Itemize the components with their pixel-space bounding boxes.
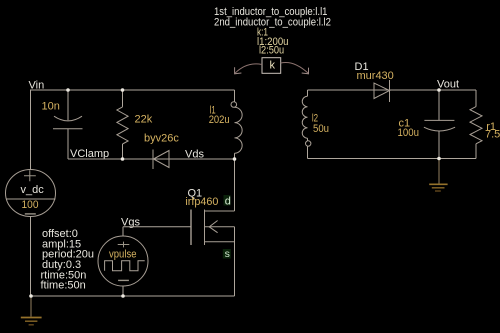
source V1 v_dc circle [6,170,56,217]
svg-text:100: 100 [22,199,39,211]
svg-text:2nd_inductor_to_couple:l.l2: 2nd_inductor_to_couple:l.l2 [214,16,331,28]
v_dc divider line [7,198,56,200]
wire top rail Vin [30,89,235,91]
diode D2 cathode bar [152,150,154,170]
svg-text:50u: 50u [313,123,329,135]
inductor L1 phase dot [231,102,237,108]
junction dot secondary gnd/c1 [437,157,441,161]
svg-text:7.5: 7.5 [485,128,500,140]
capacitor C2 straight plate [53,128,83,130]
inductor L2 coil [302,96,307,138]
svg-text:d: d [225,195,231,207]
transistor Q1 drain stub [205,210,235,212]
wire v_dc bottom [30,217,32,297]
capacitor c1 bottom wire [438,131,440,159]
svg-text:byv26c: byv26c [144,133,179,145]
transistor Q1 drain wire [234,159,236,211]
svg-text:202u: 202u [209,114,230,126]
svg-text:l2:50u: l2:50u [259,44,284,56]
transistor Q1 drain pin label d [224,195,231,206]
capacitor C2 top wire [67,90,69,120]
svg-text:100u: 100u [398,127,420,139]
wire Vgs rail [123,226,191,228]
wire secondary top rail [308,89,477,91]
resistor 22k zigzag [117,107,128,144]
svg-text:Vds: Vds [185,149,204,161]
junction dot Vin/22k [121,88,125,92]
capacitor C2 curved plate [54,116,82,121]
ground secondary bars [429,183,447,185]
vpulse plus sign [118,242,130,248]
wire secondary bottom rail [308,158,477,160]
ground primary stem [30,296,32,317]
svg-text:s: s [225,248,230,260]
capacitor C2 bottom wire [67,129,69,159]
diode D1 triangle [374,83,390,99]
svg-text:k: k [270,60,276,72]
ground primary bars [21,317,42,319]
resistor r1 zigzag [470,107,482,144]
junction dot bottom/vpulse [121,294,125,298]
v_dc plus sign [24,170,36,181]
vpulse minus sign [118,279,129,281]
wire vpulse top [122,227,124,236]
resistor r1 top wire [475,90,477,107]
junction dot Vin/C2 [66,88,70,92]
transistor Q1 source wire [234,227,236,296]
capacitor c1 straight plate [424,119,454,121]
transistor Q1 source stub [205,241,235,243]
transistor Q1 source pin label s [223,249,231,259]
inductor L1 top wire [234,90,236,102]
resistor 22k bottom wire [122,144,124,159]
svg-text:ftime:50n: ftime:50n [41,280,86,292]
inductor L1 coil [235,107,243,153]
junction dot Vds/L1/drain [233,157,237,161]
coupling box K1 [262,58,281,74]
junction dot bottom/ground [29,294,33,298]
svg-text:VClamp: VClamp [70,148,109,160]
svg-text:Vout: Vout [437,78,459,90]
ground secondary stem [438,159,440,184]
inductor L1 bottom wire [234,153,236,159]
coupling arrow right [281,62,309,73]
vpulse waveform glyph [105,261,145,271]
svg-text:vpulse: vpulse [109,249,137,261]
capacitor c1 curved plate [424,127,455,131]
transistor Q1 body stub with arrow [205,226,235,228]
junction dot Vout/c1 [437,88,441,92]
junction dot VClamp/22k [121,157,125,161]
v_dc minus sign [25,213,36,215]
wire bottom rail [31,295,235,297]
svg-text:mur430: mur430 [357,70,394,82]
svg-text:irfp460: irfp460 [185,196,218,208]
wire left drop to v_dc [30,90,32,170]
wire vpulse bottom [122,286,124,296]
svg-text:10n: 10n [42,100,60,112]
svg-text:22k: 22k [135,114,153,126]
diode D2 triangle [154,151,170,168]
resistor r1 bottom wire [475,144,477,159]
inductor L2 phase dot [306,141,311,146]
inductor L2 top elbow [307,90,309,96]
wire VClamp rail [68,158,235,160]
source V2 vpulse circle [98,236,148,286]
inductor L2 bottom wire [307,138,309,158]
capacitor c1 top wire [438,91,440,121]
resistor 22k top wire [122,90,124,107]
coupling arrow left [235,64,262,73]
diode D1 cathode bar [389,80,391,102]
svg-text:v_dc: v_dc [21,184,45,196]
transistor Q1 channel bar [204,210,206,246]
transistor Q1 gate bar [190,210,192,246]
